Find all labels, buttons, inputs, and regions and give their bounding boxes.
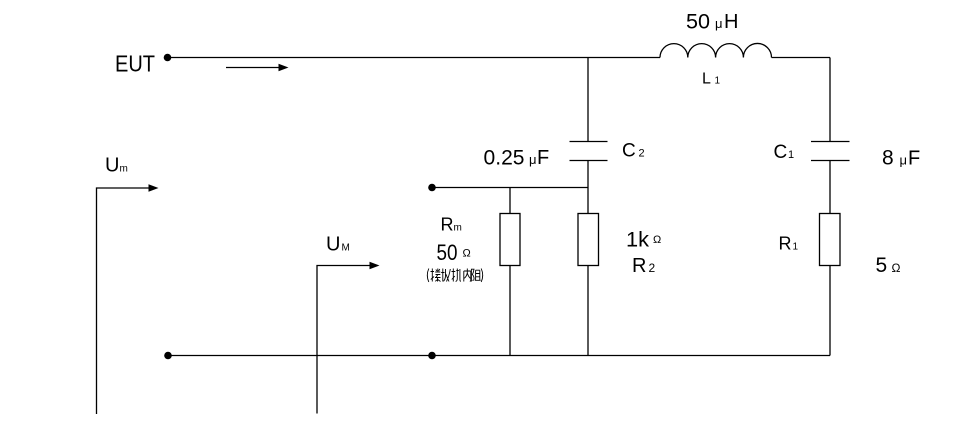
hanzi zu bbox=[471, 269, 480, 282]
inductor L1 bbox=[660, 43, 772, 57]
wire: C1 branch vertical bbox=[829, 58, 831, 142]
arrowhead: Um2 bbox=[370, 262, 380, 270]
svg-text:Ω: Ω bbox=[653, 234, 661, 246]
wire: Um2 measure bracket bbox=[317, 266, 373, 414]
node A dot bbox=[428, 184, 436, 192]
wire: C2 branch vertical from top wire bbox=[587, 58, 589, 142]
paren right bbox=[481, 269, 483, 283]
svg-text:5: 5 bbox=[876, 254, 888, 277]
svg-text:m: m bbox=[454, 223, 462, 234]
svg-text:1k: 1k bbox=[626, 229, 650, 252]
wire bottom return bbox=[168, 355, 830, 357]
wire: Rm branch drop bbox=[509, 188, 511, 214]
node bottom junction dot bbox=[428, 352, 436, 360]
wire: R2 bottom to ground wire bbox=[587, 266, 589, 356]
svg-text:50: 50 bbox=[686, 11, 710, 34]
svg-text:μ: μ bbox=[529, 152, 537, 167]
hanzi jie bbox=[431, 269, 441, 282]
paren left bbox=[427, 269, 429, 283]
svg-text:U: U bbox=[326, 234, 340, 256]
resistor R2 bbox=[578, 214, 599, 266]
wire: R1 bottom to ground wire bbox=[829, 266, 831, 356]
svg-text:1: 1 bbox=[788, 149, 794, 161]
wire top: EUT node to inductor bbox=[168, 57, 661, 59]
svg-text:Ω: Ω bbox=[892, 261, 901, 275]
svg-text:2: 2 bbox=[649, 261, 656, 275]
svg-text:EUT: EUT bbox=[115, 51, 155, 77]
svg-text:F: F bbox=[908, 148, 920, 170]
svg-text:μ: μ bbox=[900, 153, 908, 168]
hanzi ji bbox=[452, 269, 461, 282]
arrowhead: Um1 bbox=[149, 184, 159, 192]
arrowhead: current direction bbox=[279, 64, 289, 72]
svg-text:C: C bbox=[622, 141, 636, 162]
resistor Rm bbox=[500, 214, 520, 266]
svg-text:2: 2 bbox=[639, 148, 645, 160]
svg-text:M: M bbox=[342, 243, 350, 254]
wire: node A horizontal bbox=[432, 187, 588, 189]
node EUT terminal dot bbox=[164, 54, 172, 62]
wire: C2 bottom to R2 top (through node wire) bbox=[587, 161, 589, 215]
hanzi shou bbox=[441, 269, 450, 282]
wire: current direction arrow shaft bbox=[226, 67, 281, 69]
svg-text:50: 50 bbox=[437, 240, 458, 265]
capacitor C1 bbox=[811, 142, 850, 161]
wire: C1 bottom to R1 top bbox=[829, 161, 831, 215]
svg-text:0.25: 0.25 bbox=[484, 147, 525, 170]
wire: Rm bottom to ground wire bbox=[509, 266, 511, 356]
svg-text:R: R bbox=[632, 255, 646, 277]
wire: Um1 measure bracket bbox=[97, 188, 153, 414]
svg-text:R: R bbox=[441, 215, 454, 235]
svg-text:L: L bbox=[702, 71, 711, 88]
capacitor C2 bbox=[570, 142, 608, 161]
svg-text:μ: μ bbox=[715, 16, 723, 31]
hanzi nei bbox=[464, 269, 471, 282]
svg-text:F: F bbox=[537, 147, 549, 169]
svg-text:U: U bbox=[105, 155, 119, 177]
svg-text:1: 1 bbox=[793, 242, 799, 253]
label (jieshouji neizu) receiver internal resistance bbox=[427, 269, 482, 283]
svg-text:R: R bbox=[779, 234, 792, 254]
svg-text:1: 1 bbox=[715, 76, 721, 87]
svg-text:H: H bbox=[724, 11, 738, 33]
svg-text:m: m bbox=[120, 164, 128, 175]
wire top: inductor to right corner bbox=[772, 57, 831, 59]
svg-text:8: 8 bbox=[882, 147, 894, 170]
svg-text:Ω: Ω bbox=[463, 248, 471, 260]
svg-text:C: C bbox=[774, 142, 788, 163]
node bottom-left terminal dot bbox=[164, 352, 172, 360]
resistor R1 bbox=[820, 214, 841, 266]
